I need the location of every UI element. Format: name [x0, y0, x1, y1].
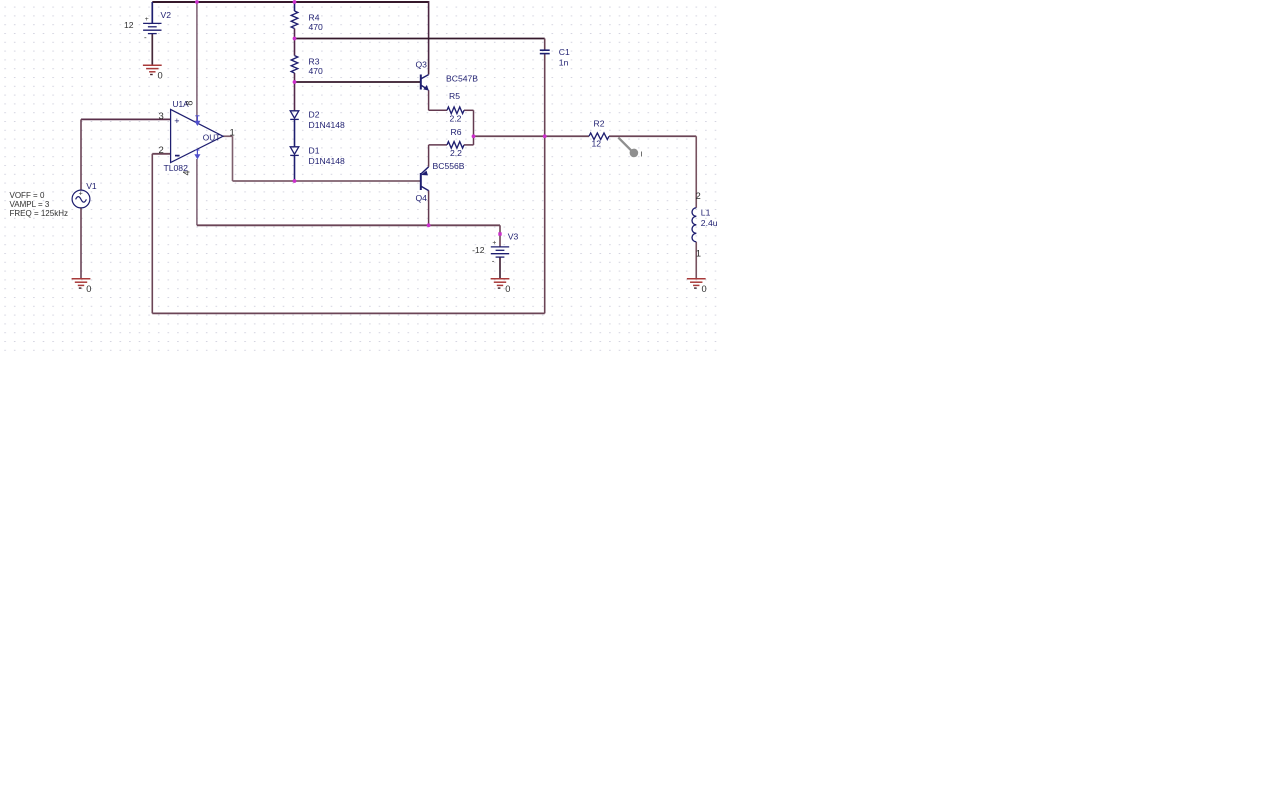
svg-text:0: 0 — [701, 284, 706, 294]
diode D2 — [290, 111, 299, 120]
resistor R3 — [291, 56, 298, 73]
wire top +12V rail — [152, 1, 428, 3]
svg-text:12: 12 — [124, 20, 134, 30]
wire R3-D2 link — [294, 73, 296, 111]
wire R5 right lead — [464, 109, 474, 111]
svg-text:+: + — [174, 116, 179, 126]
junction Q4 collector / -12V rail — [427, 223, 431, 227]
transistor Q4 PNP — [421, 167, 429, 191]
junction R5-R6 output node — [472, 134, 476, 138]
svg-text:V3: V3 — [508, 232, 519, 242]
pin marker V3 plus terminal — [498, 232, 501, 235]
svg-text:2.4u: 2.4u — [701, 218, 718, 228]
junction top rail / V+ drop — [195, 0, 199, 4]
svg-text:BC547B: BC547B — [446, 73, 478, 83]
svg-text:VAMPL = 3: VAMPL = 3 — [10, 200, 50, 209]
svg-text:0: 0 — [505, 284, 510, 294]
wire V2 bottom stem — [151, 34, 153, 66]
svg-text:FREQ = 125kHz: FREQ = 125kHz — [10, 209, 68, 218]
svg-text:2: 2 — [159, 145, 164, 156]
ground 0 under L1 — [687, 279, 706, 286]
svg-text:12: 12 — [592, 138, 602, 148]
svg-text:V2: V2 — [161, 10, 172, 20]
wire R2 to L1 column — [609, 135, 696, 137]
wire output to Q4 base — [233, 180, 421, 182]
svg-text:-: - — [144, 33, 147, 42]
wire to R5 — [429, 109, 447, 111]
wire output drop — [232, 136, 234, 181]
wire output node to R2 — [474, 135, 590, 137]
wire L1 to ground — [695, 242, 697, 279]
wire Q3 emitter lead — [428, 90, 430, 110]
svg-text:TL082: TL082 — [164, 163, 189, 173]
wire R5 to output node — [473, 110, 475, 136]
svg-text:2.2: 2.2 — [450, 114, 462, 124]
svg-text:0: 0 — [86, 284, 91, 294]
svg-text:-: - — [492, 256, 495, 265]
svg-text:R6: R6 — [451, 127, 462, 137]
ground 0 under V3 — [491, 279, 510, 286]
wire R6 right lead — [464, 144, 474, 146]
wire feedback bottom rail — [152, 312, 544, 314]
power pin glyph V- — [195, 150, 199, 158]
svg-text:VOFF = 0: VOFF = 0 — [10, 191, 45, 200]
svg-text:+: + — [145, 16, 149, 23]
svg-text:BC556B: BC556B — [433, 161, 465, 171]
svg-text:L1: L1 — [701, 207, 711, 217]
svg-text:Q4: Q4 — [416, 193, 428, 203]
wire D2-D1 link — [294, 120, 296, 147]
ground 0 under V2 — [143, 65, 162, 72]
svg-text:1: 1 — [230, 127, 235, 138]
wire pin 2 lead — [152, 153, 170, 155]
svg-text:+: + — [492, 240, 496, 247]
svg-text:Q3: Q3 — [416, 59, 428, 69]
svg-text:I: I — [641, 150, 643, 159]
svg-text:R5: R5 — [449, 91, 460, 101]
op-amp minus input mark — [175, 155, 180, 157]
svg-text:2: 2 — [696, 191, 701, 202]
ac source V1 sine — [72, 190, 90, 208]
svg-text:R2: R2 — [594, 119, 605, 129]
wire Q4 emitter lead — [428, 145, 430, 167]
power pin glyph V+ — [195, 116, 199, 125]
svg-text:2.2: 2.2 — [450, 148, 462, 158]
resistor R2 — [589, 133, 609, 140]
wire R6 left lead — [429, 144, 447, 146]
svg-text:3: 3 — [159, 111, 164, 122]
svg-text:OUT: OUT — [203, 133, 221, 143]
capacitor C1 — [540, 50, 550, 53]
junction R3 / Q3 base node — [293, 80, 297, 84]
wire R4-R3 link — [294, 29, 296, 56]
diode D1 — [290, 147, 299, 156]
wire R4/R3 node to C1 — [295, 38, 545, 40]
wire V3 top stem — [499, 225, 501, 247]
resistor R6 — [447, 142, 464, 149]
resistor R4 — [291, 11, 298, 29]
wire V1 bottom stem — [80, 208, 82, 279]
wire node to R6 — [473, 136, 475, 145]
wire node to Q3 base — [295, 81, 421, 83]
dc source V3 battery — [491, 247, 509, 257]
svg-text:470: 470 — [309, 22, 324, 32]
op-amp U1A triangle — [171, 109, 223, 162]
wire feedback left column — [151, 154, 153, 314]
wire D1 bottom lead — [294, 156, 296, 181]
svg-text:-12: -12 — [472, 245, 485, 255]
svg-text:1: 1 — [696, 249, 701, 260]
ground 0 under V1 — [72, 279, 91, 286]
junction top rail / R4 — [293, 0, 297, 4]
wire V+ to op-amp pin 8 — [196, 2, 198, 123]
svg-text:D1: D1 — [309, 146, 320, 156]
wire V1 top stem — [80, 119, 82, 190]
junction R4-R3 node — [293, 37, 297, 41]
svg-text:8: 8 — [184, 101, 194, 106]
wire op-amp output — [223, 135, 233, 137]
svg-text:1n: 1n — [559, 57, 569, 67]
wire V2 top stem — [151, 2, 153, 23]
wire Q3 collector drop — [428, 1, 430, 75]
wire V1 to pin 3 — [81, 118, 171, 120]
junction C1 / output node — [543, 134, 547, 138]
svg-text:D1N4148: D1N4148 — [309, 156, 346, 166]
svg-text:0: 0 — [158, 70, 163, 80]
transistor Q3 NPN — [421, 75, 429, 90]
wire Q4 collector lead — [428, 190, 430, 225]
svg-text:D2: D2 — [309, 110, 320, 120]
wire down to L1 — [695, 136, 697, 208]
current probe marker — [618, 138, 631, 151]
wire op-amp pin4 drop — [196, 159, 198, 225]
svg-text:.: . — [79, 201, 81, 210]
resistor R5 — [447, 107, 464, 114]
svg-text:+: + — [79, 190, 83, 197]
junction D1 / output wire — [293, 179, 297, 183]
wire C1 top lead — [544, 39, 546, 51]
svg-text:C1: C1 — [559, 47, 570, 57]
dc source V2 battery — [143, 23, 161, 33]
wire -12V rail — [197, 224, 500, 226]
wire C1 bottom to feedback rail — [544, 54, 546, 314]
wire R4 top lead — [294, 2, 296, 11]
svg-text:D1N4148: D1N4148 — [309, 120, 346, 130]
svg-text:470: 470 — [309, 66, 324, 76]
svg-text:V1: V1 — [86, 181, 97, 191]
inductor L1 — [692, 208, 696, 242]
wire V3 bottom stem — [499, 257, 501, 278]
